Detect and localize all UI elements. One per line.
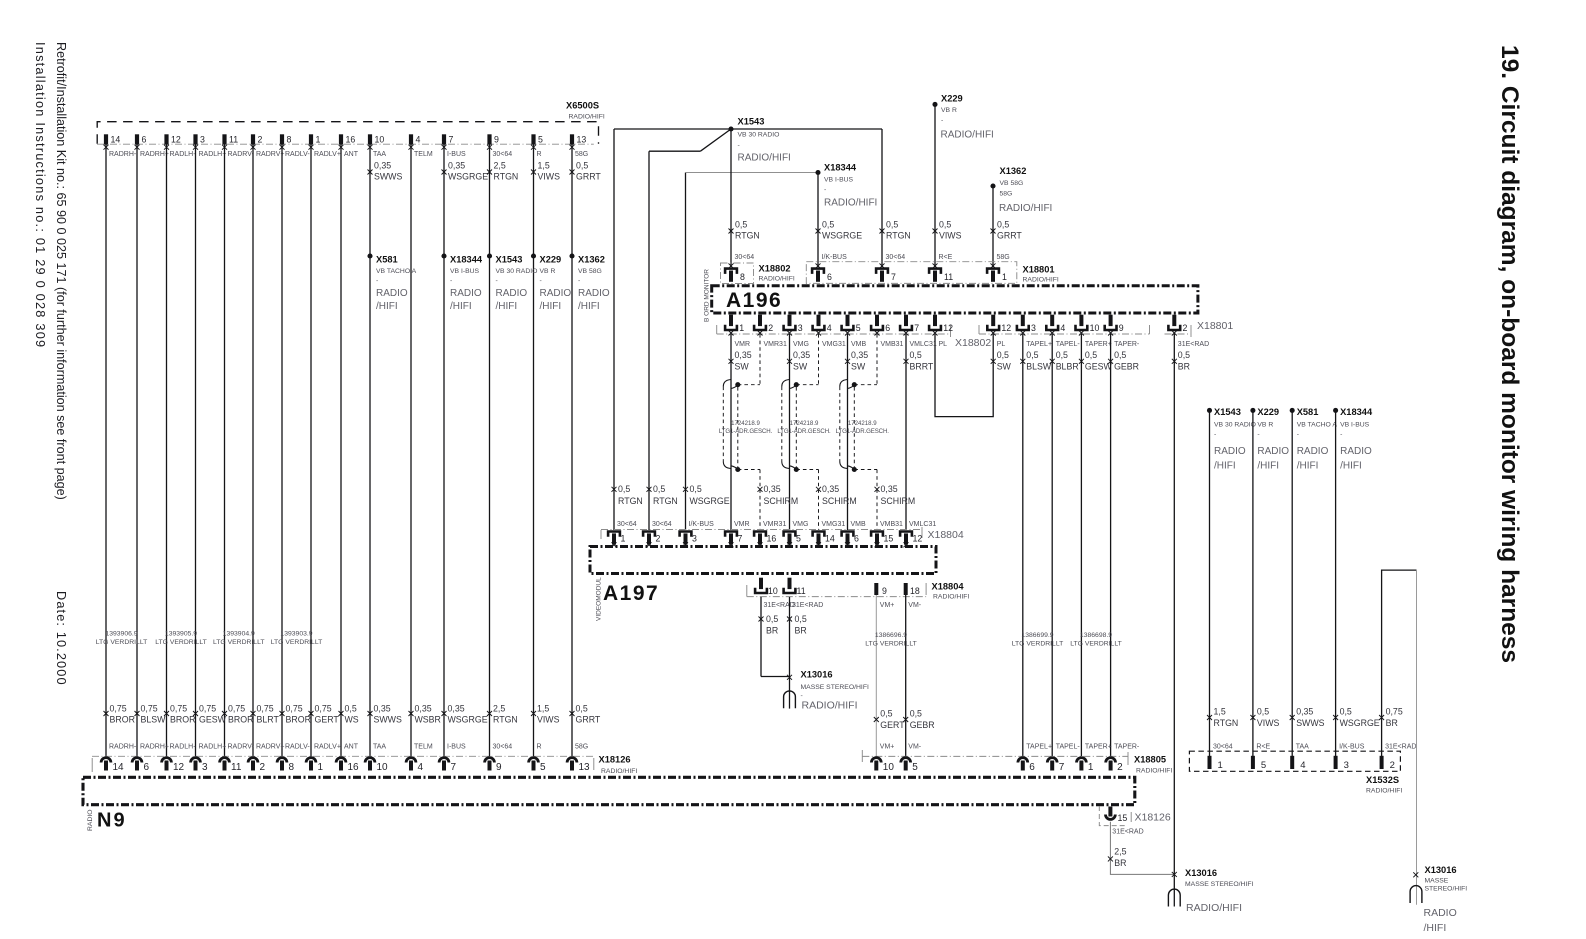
svg-text:RTGN: RTGN [494,172,519,182]
wire 31E<RAD from X18801 pin 2 down to ground X13016 [1173,334,1175,907]
pin 13 of X6500S (58G) [570,134,589,158]
wire RADLH- from X6500S pin 12 to X18126 pin 12 [166,145,168,757]
wire size label 0,5 RTGN [647,484,678,506]
wire size label 0,75 BROR [280,704,311,725]
svg-text:/HIFI: /HIFI [578,301,600,312]
svg-text:R: R [537,743,542,750]
svg-text:VB 58G: VB 58G [578,268,602,275]
shielded twisted pair VMR/VMR31 (LTG1-ADR.GESCH.) [723,334,760,530]
svg-text:X1362: X1362 [1000,166,1027,176]
wire VB 30 RADIO horizontal (X1543 feed) [614,128,882,130]
pin 10 of X18126 [365,758,388,773]
svg-text:A197: A197 [603,582,659,605]
wire size label 0,5 GRRT [570,160,602,181]
wire R from X6500S pin 5 to X18126 pin 5 [533,145,535,757]
wire TELM from X6500S pin 4 to X18126 pin 4 [410,145,412,757]
svg-text:1724218.9: 1724218.9 [731,420,760,427]
wire x882 down to X18802 pin 7 [881,129,883,267]
svg-text:16: 16 [348,762,360,773]
wire size label 0,5 RTGN [729,219,760,240]
svg-text:RADIO/HIFI: RADIO/HIFI [1366,787,1402,794]
svg-text:X18804: X18804 [932,581,965,591]
svg-text:BR: BR [795,626,807,636]
svg-text:1386698.9: 1386698.9 [1080,632,1112,639]
cable part label 1724218.9 LTG1-ADR.GESCH. [777,420,831,435]
svg-text:BLRT: BLRT [257,715,280,725]
pin 4 (bottom row of A196) [1045,315,1065,336]
svg-text:-: - [376,278,378,285]
svg-text:3: 3 [1031,323,1036,333]
pin 14 of X18126 [101,758,124,773]
pin 12 of X18126 [162,758,185,773]
pin 4 of X1532S [1290,756,1305,771]
svg-text:LTG VERDRILLT: LTG VERDRILLT [1070,640,1122,647]
svg-text:VMB: VMB [851,521,867,528]
wire 58G from X6500S pin 13 to X18126 pin 13 [571,145,573,757]
svg-text:GEBR: GEBR [1114,361,1139,371]
svg-text:2: 2 [768,323,773,333]
svg-text:/HIFI: /HIFI [376,301,398,312]
pin 8 of X18126 [277,758,294,773]
svg-text:0,35: 0,35 [1296,707,1313,717]
svg-text:-: - [1214,431,1216,438]
pin 11 of X18126 [220,758,242,773]
pin 11 of X6500S (RADRV-) [222,134,254,158]
svg-text:0,5: 0,5 [1056,350,1068,360]
pin 6 (top row into A196) [811,263,832,282]
svg-text:1,5: 1,5 [1214,707,1226,717]
wire size label 0,35 SWWS [1290,707,1325,728]
svg-text:TELM: TELM [414,151,433,158]
wire size label 0,75 BLRT [251,704,280,725]
wire size label 0,5 BR (pin 10) [759,614,779,636]
svg-text:7: 7 [451,762,457,773]
svg-text:RADRV-: RADRV- [228,151,255,158]
svg-text:LTG VERDRILLT: LTG VERDRILLT [96,639,148,646]
svg-text:VM+: VM+ [880,602,895,609]
wire 31E<RAD riser from X1532S pin 2 [1382,570,1417,756]
svg-text:6: 6 [854,534,859,544]
pin 2 of X18804 [642,530,661,547]
wire size label 1,5 RTGN [1207,707,1238,728]
cable part label 1393904.9 LTG VERDRILLT [213,630,265,646]
svg-text:VMLC31: VMLC31 [910,341,937,348]
svg-text:1: 1 [621,534,626,544]
svg-text:I/K-BUS: I/K-BUS [1339,743,1365,750]
svg-text:I-BUS: I-BUS [447,743,466,750]
svg-text:LTG VERDRILLT: LTG VERDRILLT [1012,640,1064,647]
svg-text:BLSW: BLSW [141,715,167,725]
svg-text:X13016: X13016 [1425,865,1457,875]
svg-text:0,5: 0,5 [690,484,702,494]
svg-text:RTGN: RTGN [618,496,643,506]
pin 9 of X6500S (30<64) [487,134,512,158]
svg-text:RADIO: RADIO [578,288,610,299]
svg-text:RTGN: RTGN [653,496,678,506]
svg-text:58G: 58G [1000,190,1013,197]
svg-text:RADLH-: RADLH- [170,151,197,158]
wire from X1543 down to X1532S [1209,410,1211,756]
svg-text:11: 11 [231,762,242,773]
svg-text:VM+: VM+ [880,743,895,750]
label X18802 RADIO/HIFI (top row) [759,263,795,282]
wire TAPEL- from A196 to X18805 pin 7 [1051,334,1053,756]
wire size label 2,5 RTGN [487,704,518,725]
svg-text:VMR: VMR [735,341,751,348]
device N9 (RADIO) dash-dot box [83,777,1135,804]
pin 5 of X18804 [782,530,801,547]
svg-text:0,5: 0,5 [576,160,588,170]
svg-text:-: - [801,693,803,700]
svg-text:30<64: 30<64 [652,521,672,528]
svg-text:-: - [1297,431,1299,438]
wire from X18344 node down to X18802 pin 6 [817,173,819,268]
svg-text:0,75: 0,75 [257,704,274,714]
svg-text:18: 18 [910,586,920,596]
wire vertical x649 down to X18804 pin 2 [648,151,650,530]
svg-text:GERT: GERT [880,720,905,730]
svg-text:TELM: TELM [414,743,433,750]
pin 10 of X18804 (31E<RAD) [754,578,778,596]
left margin text: date [54,591,69,686]
wire VB I-BUS horizontal (X18344 feed, gray) [686,172,819,174]
connector X18126 pin 15 dashed box [1099,806,1125,826]
svg-text:SW: SW [735,361,750,371]
svg-text:3: 3 [200,135,205,145]
wire size label 0,75 BR [1379,707,1403,728]
svg-text:5: 5 [1261,760,1266,771]
svg-text:0,75: 0,75 [141,704,158,714]
svg-text:I/K-BUS: I/K-BUS [689,521,715,528]
svg-text:SWWS: SWWS [374,715,402,725]
svg-text:3: 3 [798,323,803,333]
wire size label 0,5 GERT [874,709,905,731]
wire 31E<RAD (gray) down to ground X13016 [1416,570,1418,905]
wire size label 0,35 SCHIRM [875,484,916,506]
svg-text:0,35: 0,35 [374,160,391,170]
wire size label 0,5 RTGN [612,484,643,506]
svg-text:1724218.9: 1724218.9 [790,420,819,427]
svg-text:RADRH+: RADRH+ [140,151,169,158]
svg-text:VB 30 RADIO: VB 30 RADIO [1214,421,1256,428]
svg-text:TAA: TAA [373,151,386,158]
wire size label 0,75 GERT [309,704,340,725]
pin 3 (bottom row of A196) [1016,315,1036,336]
svg-text:X18805: X18805 [1134,755,1166,765]
svg-text:0,5: 0,5 [576,704,588,714]
label X1532S RADIO/HIFI [1366,775,1402,794]
svg-text:VMR31: VMR31 [764,341,787,348]
svg-text:2: 2 [1183,323,1188,333]
connector X18804 top boundary [601,529,922,531]
svg-text:30<64: 30<64 [493,151,513,158]
svg-text:1: 1 [1218,760,1223,771]
svg-text:PL: PL [939,341,948,348]
wire TAPER+ from A196 to X18805 pin 1 [1080,334,1082,756]
cable part label 1386699.9 LTG VERDRILLT [1012,632,1064,647]
svg-text:10: 10 [377,762,389,773]
svg-text:RADLH-: RADLH- [170,743,197,750]
wire ANT from X6500S pin 16 to X18126 pin 16 [340,145,342,757]
svg-text:RADIO: RADIO [87,809,94,831]
pin 7 of X6500S (I-BUS) [442,134,467,158]
node X229 (VB R) right section [1250,407,1289,472]
wire from X229 node down to X18802 pin 11 [934,104,936,267]
wire from X229 down to X1532S [1252,410,1254,756]
connector X18802 pin-8 dash-dot box [721,263,754,284]
svg-text:VB 58G: VB 58G [1000,180,1024,187]
svg-text:RADRH+: RADRH+ [140,743,169,750]
wire vertical x614 down to X18804 pin 1 [613,129,615,530]
svg-text:30<64: 30<64 [735,254,755,261]
svg-text:1393903.9: 1393903.9 [280,630,312,637]
svg-text:/HIFI: /HIFI [450,301,472,312]
svg-text:RADIO/HIFI: RADIO/HIFI [824,198,877,209]
cable part label 1393906.9 LTG VERDRILLT [96,630,148,646]
pin 6 of X18126 [132,758,149,773]
svg-text:TAPER+: TAPER+ [1085,743,1112,750]
svg-text:30<64: 30<64 [1213,743,1233,750]
svg-text:I/K-BUS: I/K-BUS [822,254,848,261]
svg-text:BR: BR [1178,361,1190,371]
svg-text:N9: N9 [97,810,127,832]
svg-text:-: - [738,142,740,149]
wire RADRH- from X6500S pin 14 to X18126 pin 14 [105,145,107,757]
svg-text:14: 14 [111,135,121,145]
svg-text:/HIFI: /HIFI [496,301,518,312]
svg-text:I-BUS: I-BUS [447,151,466,158]
device A197 (VIDEOMODUL) dash-dot box [590,547,936,574]
svg-text:9: 9 [882,586,887,596]
svg-text:4: 4 [418,762,424,773]
svg-text:RADLH+: RADLH+ [199,151,227,158]
wire size label 0,75 BROR [222,704,253,725]
svg-text:RADLH+: RADLH+ [199,743,227,750]
svg-text:X13016: X13016 [801,670,833,680]
pin 3 of X1532S [1334,756,1349,771]
wire 2,5 BR from X18126 pin 15 to ground [1110,822,1174,875]
svg-text:58G: 58G [575,743,588,750]
svg-text:X1362: X1362 [578,254,605,264]
svg-text:1393906.9: 1393906.9 [105,630,137,637]
connector X6500S (RADIO/HIFI) dashed box [97,122,598,144]
svg-text:2: 2 [1117,762,1123,773]
svg-text:RADIO: RADIO [450,288,482,299]
svg-text:SW: SW [851,361,866,371]
wire size label 0,35 SW [787,350,810,371]
wire size label 1,5 VIWS [531,160,560,181]
svg-text:Retrofit/Installation Kit no.:: Retrofit/Installation Kit no.: 65 90 0 0… [54,42,68,500]
wire size label 0,5 GEBR [903,709,934,731]
svg-text:3: 3 [692,534,697,544]
pin 8 (top row into A196) [724,263,745,282]
svg-text:-: - [941,117,943,124]
svg-text:TAPEL+: TAPEL+ [1026,743,1052,750]
wire size label 0,5 WSGRGE [683,484,730,506]
svg-text:5: 5 [856,323,861,333]
wire RADRH+ from X6500S pin 6 to X18126 pin 6 [136,145,138,757]
pin 9 (bottom row of A196) [1103,315,1123,336]
svg-text:0,75: 0,75 [286,704,303,714]
pin 16 of X18804 [753,530,777,547]
wire PL U-link from X18802 pin 12 to X18801 pin 12 [935,334,993,417]
left margin text: kit number [54,42,68,500]
rotated label VIDEOMODUL of A197 [596,577,603,621]
svg-text:1: 1 [316,135,321,145]
svg-text:0,35: 0,35 [881,484,898,494]
svg-text:12: 12 [171,135,181,145]
svg-text:LTG1-ADR.GESCH.: LTG1-ADR.GESCH. [777,428,831,435]
cable part label 1393903.9 LTG VERDRILLT [271,630,323,646]
svg-text:GERT: GERT [315,715,340,725]
svg-text:VB I-BUS: VB I-BUS [1340,421,1370,428]
svg-text:VB I-BUS: VB I-BUS [824,177,854,184]
svg-text:19. Circuit diagram, on-board: 19. Circuit diagram, on-board monitor wi… [1496,45,1523,663]
svg-text:WSBR: WSBR [415,715,441,725]
svg-text:12: 12 [943,323,953,333]
svg-text:RTGN: RTGN [735,230,760,240]
label X18801 RADIO/HIFI (top row) [1023,264,1059,283]
svg-text:5: 5 [538,135,543,145]
svg-text:7: 7 [1059,762,1065,773]
wire size label 2,5 BR [1108,847,1127,868]
svg-text:14: 14 [825,534,835,544]
svg-text:X229: X229 [540,254,562,264]
pin 4 of X6500S (TELM) [409,134,433,158]
cable part label 1724218.9 LTG1-ADR.GESCH. [719,420,773,435]
svg-text:VMB31: VMB31 [881,341,904,348]
wire size label 0,5 WSGRGE [816,219,863,240]
svg-text:8: 8 [289,762,295,773]
svg-text:VB R: VB R [540,268,556,275]
svg-text:0,5: 0,5 [795,614,807,624]
svg-text:4: 4 [1300,760,1305,771]
ground X13016 MASSE STEREO/HIFI (center) [1168,868,1253,914]
svg-text:RADIO: RADIO [1214,446,1246,457]
wire size label 0,5 WS [339,704,359,725]
node X581 (VB TACHO A) right section [1290,407,1338,472]
svg-text:2: 2 [656,534,661,544]
svg-text:-: - [1340,431,1342,438]
svg-text:WSGRGE: WSGRGE [448,172,488,182]
svg-text:RADIO/HIFI: RADIO/HIFI [759,275,795,282]
svg-text:RADRH-: RADRH- [109,743,137,750]
svg-text:1: 1 [1002,272,1007,282]
svg-text:TAA: TAA [373,743,386,750]
connector X18801 pin-2 boundary [1165,333,1192,335]
svg-text:RADIO: RADIO [1424,907,1457,919]
svg-text:BR: BR [1386,718,1398,728]
svg-text:0,5: 0,5 [1340,707,1352,717]
cable part label 1386698.9 LTG VERDRILLT [1070,632,1122,647]
svg-text:8: 8 [287,135,292,145]
svg-text:X581: X581 [376,254,398,264]
svg-text:7: 7 [891,272,896,282]
svg-text:5: 5 [540,762,546,773]
svg-text:0,35: 0,35 [822,484,839,494]
svg-text:0,5: 0,5 [1257,707,1269,717]
svg-text:4: 4 [1060,323,1065,333]
wire size label 0,5 BRRT [904,350,934,371]
wire RADRV+ from X6500S pin 2 to X18126 pin 2 [252,145,254,757]
svg-text:30<64: 30<64 [886,254,906,261]
svg-text:RADIO/HIFI: RADIO/HIFI [933,593,969,600]
svg-text:VB 30 RADIO: VB 30 RADIO [738,132,780,139]
svg-text:LTG VERDRILLT: LTG VERDRILLT [271,639,323,646]
svg-text:R<E: R<E [939,254,953,261]
svg-text:0,75: 0,75 [199,704,216,714]
svg-text:LTG1-ADR.GESCH.: LTG1-ADR.GESCH. [836,428,890,435]
svg-text:ANT: ANT [344,151,359,158]
wire 0,5 BR from X18804 pin 10 [760,597,762,677]
wire RADLH+ from X6500S pin 3 to X18126 pin 3 [195,145,197,757]
wire TAA from X6500S pin 10 to X18126 pin 10 [369,145,371,757]
svg-text:3: 3 [202,762,208,773]
svg-text:0,5: 0,5 [822,219,834,229]
pin 12 (bottom row of A196) [928,315,953,336]
pin 3 of X18126 [191,758,208,773]
svg-text:31E<RAD: 31E<RAD [1112,829,1143,836]
svg-text:-: - [540,278,542,285]
connector X18805 boundary [862,755,1128,757]
wire size label 1,5 VIWS [531,704,560,725]
svg-text:6: 6 [827,272,832,282]
wire size label 0,35 WSGRGE [442,704,488,725]
connector X18126 boundary line [92,755,594,757]
svg-text:A196: A196 [726,289,782,312]
svg-text:31E<RAD: 31E<RAD [1178,341,1209,348]
svg-text:0,75: 0,75 [170,704,187,714]
svg-text:30<64: 30<64 [493,743,513,750]
svg-text:VMR31: VMR31 [763,521,786,528]
pin 5 of X1532S [1251,756,1266,771]
svg-text:RADLV-: RADLV- [285,743,310,750]
pin 16 of X6500S (ANT) [339,134,359,158]
svg-text:Installation Instructions no.:: Installation Instructions no.: 01 29 0 0… [33,42,48,348]
wire RADLV- from X6500S pin 8 to X18126 pin 8 [281,145,283,757]
svg-text:2: 2 [260,762,266,773]
svg-text:SWWS: SWWS [374,172,402,182]
svg-text:X18126: X18126 [599,755,631,765]
pin 10 of X6500S (TAA) [368,134,387,158]
svg-text:9: 9 [496,762,502,773]
wire VMR from A196 to X18804 [730,334,732,530]
svg-text:2,5: 2,5 [1114,847,1126,857]
label X18126 RADIO/HIFI [599,755,638,775]
node X1362 (VB 58G) [990,166,1052,214]
svg-text:X18344: X18344 [1340,407,1373,417]
svg-text:10: 10 [1090,323,1100,333]
svg-text:VB TACHO A: VB TACHO A [1297,421,1338,428]
svg-text:VMB: VMB [851,341,867,348]
connector X1532S dashed box [1189,751,1400,771]
svg-text:X18802: X18802 [759,263,791,273]
svg-text:X1543: X1543 [738,116,765,126]
wire joining BR wires [761,676,790,678]
svg-text:SW: SW [997,361,1012,371]
svg-text:VMG: VMG [793,341,809,348]
wire size label 0,35 SCHIRM [816,484,857,506]
wire size label 0,35 SWWS [368,160,403,181]
svg-text:RADIO/HIFI: RADIO/HIFI [1023,276,1059,283]
svg-text:0,35: 0,35 [448,160,465,170]
wire size label 0,75 BLSW [135,704,167,725]
svg-text:MASSE STEREO/HIFI: MASSE STEREO/HIFI [801,684,869,691]
pin 2 of X18126 [248,758,265,773]
svg-text:BR: BR [1114,858,1126,868]
svg-text:X1532S: X1532S [1366,775,1399,785]
svg-text:/HIFI: /HIFI [1214,461,1236,472]
